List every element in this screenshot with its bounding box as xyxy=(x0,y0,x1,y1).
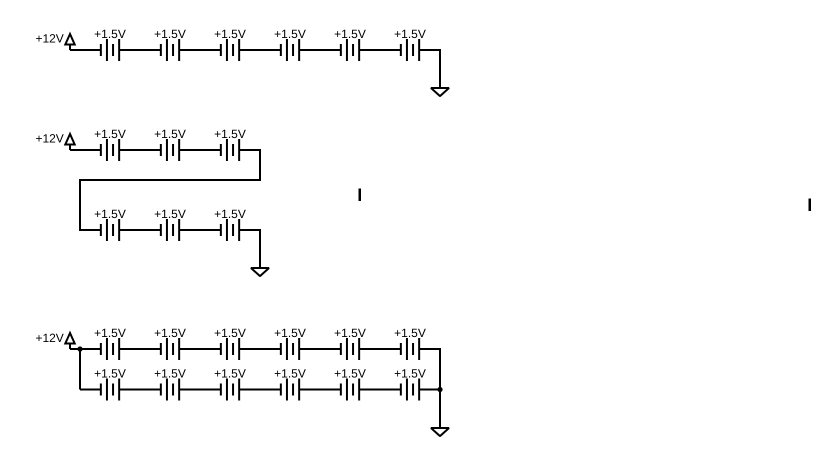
wire xyxy=(359,348,401,350)
battery fig3-B2, 1.5V cell xyxy=(161,338,179,360)
battery fig3-B8, 1.5V cell xyxy=(161,379,179,401)
battery fig1-B2, 1.5V cell xyxy=(161,39,179,61)
svg-text:+1.5V: +1.5V xyxy=(394,367,426,381)
wire xyxy=(299,49,341,51)
power symbol +12V (circuit 2) xyxy=(65,134,74,150)
battery fig1-B3, 1.5V cell xyxy=(221,39,239,61)
wire xyxy=(239,49,281,51)
wire xyxy=(239,230,260,268)
svg-text:+1.5V: +1.5V xyxy=(214,207,246,221)
wire xyxy=(299,348,341,350)
svg-text:+1.5V: +1.5V xyxy=(154,326,186,340)
wire xyxy=(419,50,440,88)
svg-text:+1.5V: +1.5V xyxy=(154,27,186,41)
letter I mark (right) xyxy=(809,199,812,212)
wire xyxy=(419,389,440,391)
wire xyxy=(70,49,101,51)
wire xyxy=(359,49,401,51)
svg-text:+1.5V: +1.5V xyxy=(154,207,186,221)
battery fig2-B5, 1.5V cell xyxy=(161,219,179,241)
svg-text:+1.5V: +1.5V xyxy=(94,326,126,340)
wire xyxy=(179,149,221,151)
wire xyxy=(179,229,221,231)
wire xyxy=(79,349,81,390)
battery fig3-B1, 1.5V cell xyxy=(101,338,119,360)
svg-text:+1.5V: +1.5V xyxy=(154,367,186,381)
battery fig3-B10, 1.5V cell xyxy=(281,379,299,401)
svg-text:+1.5V: +1.5V xyxy=(334,326,366,340)
battery fig2-B2, 1.5V cell xyxy=(161,139,179,161)
battery fig2-B3, 1.5V cell xyxy=(221,139,239,161)
svg-text:+12V: +12V xyxy=(35,331,63,345)
wire xyxy=(179,49,221,51)
battery fig1-B1, 1.5V cell xyxy=(101,39,119,61)
battery fig3-B4, 1.5V cell xyxy=(281,338,299,360)
svg-text:+1.5V: +1.5V xyxy=(394,326,426,340)
battery fig2-B4, 1.5V cell xyxy=(101,219,119,241)
ground symbol (circuit 1) xyxy=(431,88,449,96)
power symbol +12V (circuit 1) xyxy=(65,34,74,50)
wire xyxy=(70,149,101,151)
svg-text:+1.5V: +1.5V xyxy=(94,127,126,141)
battery fig3-B9, 1.5V cell xyxy=(221,379,239,401)
svg-text:+1.5V: +1.5V xyxy=(274,326,306,340)
wire xyxy=(80,389,101,391)
wire xyxy=(119,49,161,51)
wire xyxy=(119,389,161,391)
svg-text:+1.5V: +1.5V xyxy=(214,27,246,41)
svg-text:+1.5V: +1.5V xyxy=(214,326,246,340)
wire xyxy=(119,149,161,151)
battery fig2-B1, 1.5V cell xyxy=(101,139,119,161)
power symbol +12V (circuit 3) xyxy=(65,333,74,349)
battery fig3-B12, 1.5V cell xyxy=(401,379,419,401)
svg-text:+1.5V: +1.5V xyxy=(274,27,306,41)
battery fig1-B6, 1.5V cell xyxy=(401,39,419,61)
battery fig2-B6, 1.5V cell xyxy=(221,219,239,241)
battery fig3-B3, 1.5V cell xyxy=(221,338,239,360)
svg-text:+1.5V: +1.5V xyxy=(394,27,426,41)
svg-text:+1.5V: +1.5V xyxy=(154,127,186,141)
svg-text:+1.5V: +1.5V xyxy=(334,367,366,381)
svg-text:+1.5V: +1.5V xyxy=(334,27,366,41)
ground symbol (circuit 2) xyxy=(251,268,269,276)
junction node at +12V rail split (circuit 3) xyxy=(77,346,82,351)
svg-text:+1.5V: +1.5V xyxy=(94,207,126,221)
svg-text:+12V: +12V xyxy=(35,132,63,146)
ground symbol (circuit 3) xyxy=(431,428,449,436)
svg-text:+1.5V: +1.5V xyxy=(274,367,306,381)
svg-text:+1.5V: +1.5V xyxy=(214,127,246,141)
battery fig3-B11, 1.5V cell xyxy=(341,379,359,401)
junction node at ground-side merge (circuit 3) xyxy=(437,387,442,392)
svg-text:+1.5V: +1.5V xyxy=(214,367,246,381)
wire xyxy=(70,348,101,350)
wire xyxy=(119,229,161,231)
wire xyxy=(179,348,221,350)
battery fig1-B4, 1.5V cell xyxy=(281,39,299,61)
battery fig3-B5, 1.5V cell xyxy=(341,338,359,360)
wire xyxy=(239,348,281,350)
wire xyxy=(419,349,440,428)
svg-text:+12V: +12V xyxy=(35,32,63,46)
wire xyxy=(119,348,161,350)
wire xyxy=(299,389,341,391)
battery fig1-B5, 1.5V cell xyxy=(341,39,359,61)
wire xyxy=(239,389,281,391)
svg-text:+1.5V: +1.5V xyxy=(94,27,126,41)
letter I mark (left) xyxy=(359,189,362,202)
wire xyxy=(359,389,401,391)
battery fig3-B6, 1.5V cell xyxy=(401,338,419,360)
wire xyxy=(80,150,260,230)
battery fig3-B7, 1.5V cell xyxy=(101,379,119,401)
wire xyxy=(179,389,221,391)
svg-text:+1.5V: +1.5V xyxy=(94,367,126,381)
